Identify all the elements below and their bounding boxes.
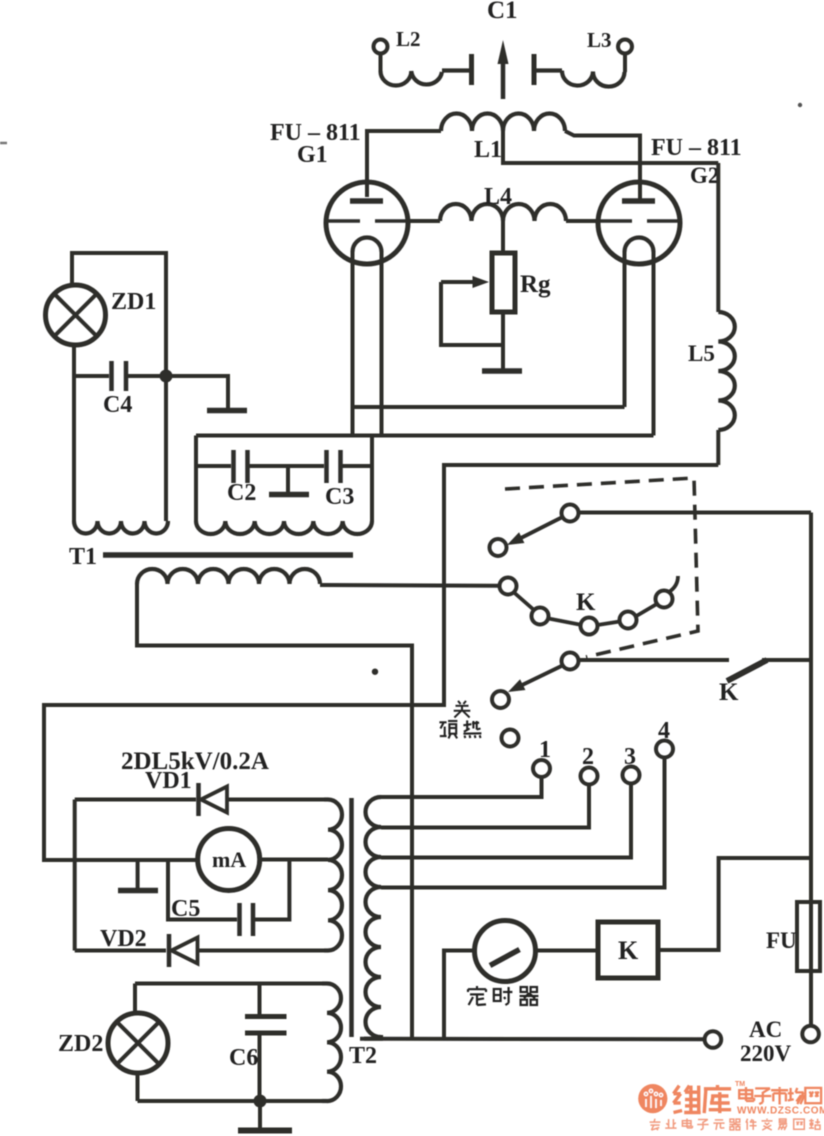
svg-text:2DL5kV/0.2A: 2DL5kV/0.2A — [121, 748, 269, 775]
svg-text:Rg: Rg — [520, 271, 551, 298]
svg-text:mA: mA — [212, 847, 246, 872]
svg-text:G1: G1 — [297, 142, 328, 168]
svg-text:220V: 220V — [740, 1041, 792, 1066]
svg-text:VD2: VD2 — [100, 926, 147, 952]
svg-text:L5: L5 — [688, 341, 715, 366]
svg-text:1: 1 — [539, 737, 551, 763]
svg-text:L2: L2 — [396, 27, 421, 51]
svg-text:G2: G2 — [690, 163, 719, 188]
svg-text:3: 3 — [624, 744, 636, 770]
svg-text:C1: C1 — [487, 0, 518, 24]
svg-text:2: 2 — [582, 744, 594, 770]
svg-text:FU: FU — [766, 928, 797, 953]
svg-text:ZD1: ZD1 — [111, 289, 156, 315]
svg-text:AC: AC — [749, 1017, 782, 1042]
svg-text:4: 4 — [658, 718, 670, 744]
svg-text:K: K — [719, 679, 739, 706]
svg-text:C3: C3 — [325, 484, 354, 510]
svg-text:C2: C2 — [227, 480, 256, 506]
svg-text:K: K — [576, 589, 596, 616]
svg-text:K: K — [618, 936, 639, 965]
svg-text:C5: C5 — [171, 896, 200, 922]
svg-text:FU – 811: FU – 811 — [651, 135, 742, 161]
svg-text:C4: C4 — [103, 392, 132, 418]
svg-text:L4: L4 — [484, 184, 512, 210]
svg-text:T2: T2 — [349, 1043, 377, 1069]
svg-text:C6: C6 — [229, 1045, 258, 1071]
svg-text:VD1: VD1 — [145, 768, 192, 794]
svg-text:TM: TM — [735, 1081, 745, 1088]
svg-text:WWW.DZSC.COM: WWW.DZSC.COM — [737, 1106, 824, 1117]
svg-text:L3: L3 — [587, 28, 612, 52]
svg-text:ZD2: ZD2 — [58, 1031, 103, 1057]
svg-text:L1: L1 — [474, 137, 502, 163]
svg-text:T1: T1 — [69, 544, 97, 570]
